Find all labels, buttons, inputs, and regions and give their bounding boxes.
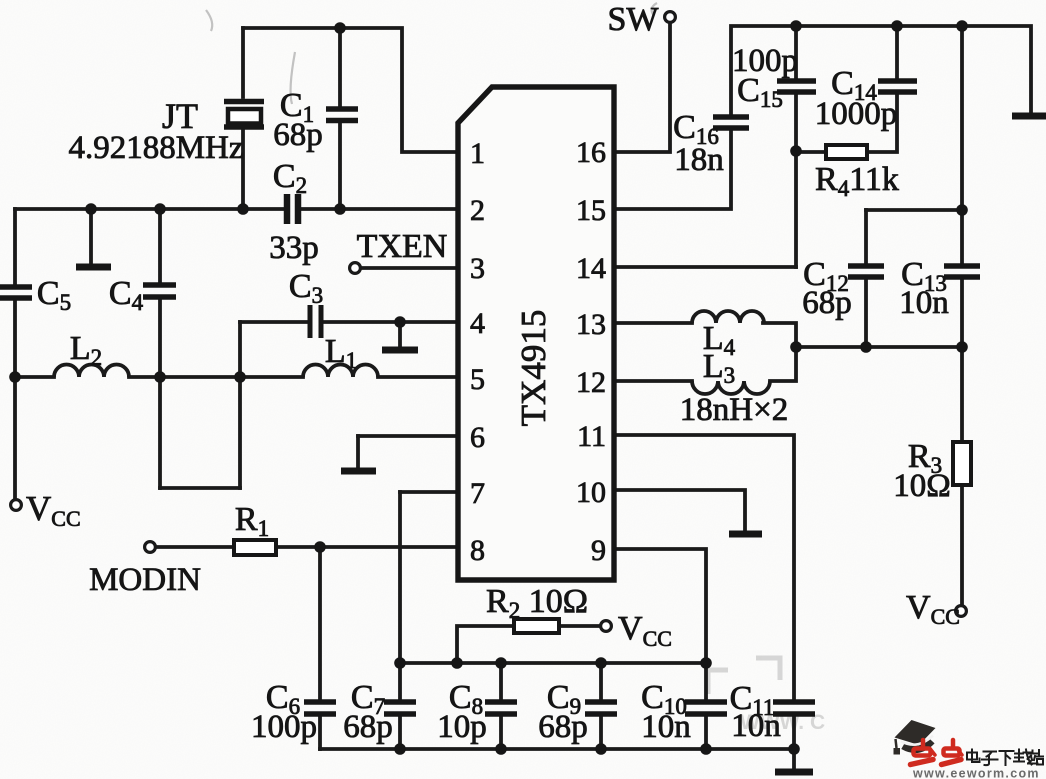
svg-text:10n: 10n bbox=[899, 285, 949, 321]
svg-text:12: 12 bbox=[576, 366, 606, 399]
svg-text:68p: 68p bbox=[273, 117, 323, 153]
svg-text:R2 10Ω: R2 10Ω bbox=[486, 583, 588, 623]
svg-text:13: 13 bbox=[576, 308, 606, 341]
svg-text:16: 16 bbox=[576, 136, 606, 169]
svg-text:100p: 100p bbox=[251, 709, 317, 745]
svg-text:14: 14 bbox=[576, 252, 606, 285]
svg-text:1000p: 1000p bbox=[815, 96, 898, 132]
svg-text:TXEN: TXEN bbox=[357, 228, 448, 265]
svg-text:33p: 33p bbox=[269, 230, 319, 266]
svg-text:11: 11 bbox=[577, 420, 606, 453]
svg-text:68p: 68p bbox=[538, 709, 588, 745]
svg-text:10: 10 bbox=[576, 476, 606, 509]
svg-text:9: 9 bbox=[591, 534, 606, 567]
svg-text:4.92188MHz: 4.92188MHz bbox=[68, 130, 243, 166]
svg-text:5: 5 bbox=[470, 363, 485, 396]
svg-text:18n: 18n bbox=[674, 142, 724, 178]
svg-text:68p: 68p bbox=[343, 709, 393, 745]
svg-text:SW: SW bbox=[608, 1, 660, 38]
svg-text:68p: 68p bbox=[802, 285, 852, 321]
svg-text:10n: 10n bbox=[641, 709, 691, 745]
svg-text:10n: 10n bbox=[731, 708, 781, 744]
svg-text:www.eeworm.com: www.eeworm.com bbox=[912, 767, 1040, 779]
svg-text:10Ω: 10Ω bbox=[893, 468, 951, 504]
svg-text:R411k: R411k bbox=[815, 161, 899, 201]
svg-text:2: 2 bbox=[470, 194, 485, 227]
svg-text:TX4915: TX4915 bbox=[514, 310, 553, 427]
svg-text:6: 6 bbox=[470, 421, 485, 454]
svg-text:3: 3 bbox=[470, 252, 485, 285]
svg-text:100p: 100p bbox=[732, 43, 798, 79]
svg-text:15: 15 bbox=[576, 194, 606, 227]
svg-text:4: 4 bbox=[470, 307, 485, 340]
svg-text:18nH×2: 18nH×2 bbox=[680, 392, 788, 428]
svg-text:1: 1 bbox=[470, 137, 485, 170]
svg-text:MODIN: MODIN bbox=[89, 562, 201, 598]
svg-text:7: 7 bbox=[470, 477, 485, 510]
svg-text:10p: 10p bbox=[437, 709, 487, 745]
svg-text:8: 8 bbox=[470, 534, 485, 567]
